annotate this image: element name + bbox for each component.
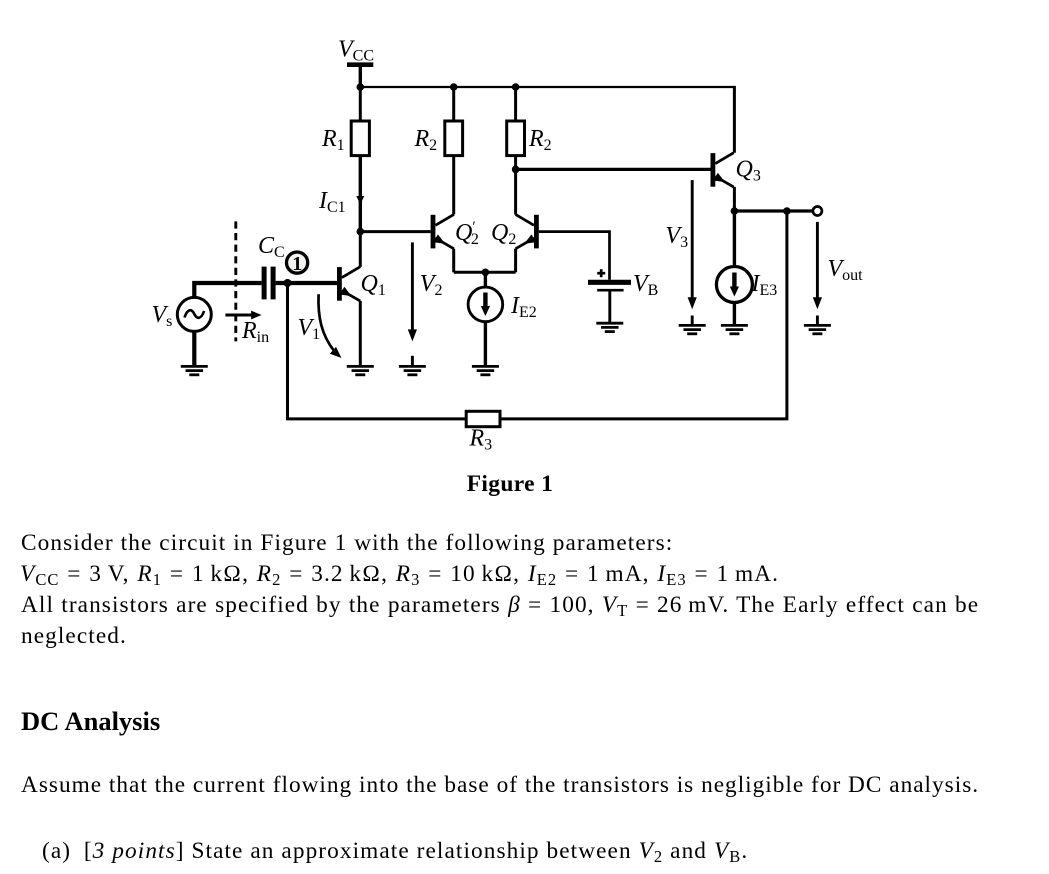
wire common emitter horizontal [454, 271, 516, 274]
wire VB to ground [608, 292, 611, 323]
sine wave inside Vs [185, 310, 205, 318]
wire R2 right to Q2 collector [514, 156, 517, 215]
wire rail to R2 left [452, 87, 455, 121]
wire VCC stem [359, 65, 362, 87]
node rail-R2 left [450, 83, 458, 91]
wire Q2p emitter down [452, 249, 455, 273]
wire top supply rail [360, 86, 734, 88]
measurement arrow Vout [816, 222, 819, 298]
wire R2 left to Q2p collector [452, 156, 455, 215]
wire IE3 to ground [733, 303, 736, 326]
wire IE2 to ground [484, 322, 487, 367]
measurement arrow V1 [318, 294, 334, 351]
ground below IE2 [472, 365, 499, 368]
capacitor Cc plate right [271, 267, 276, 300]
measurement arrow V2 [411, 242, 414, 330]
node R2 right / Q3 base wire [512, 166, 520, 174]
current arrow IC1 [356, 196, 364, 205]
source Vs circle [177, 297, 211, 331]
resistor R2 (right) [507, 121, 525, 156]
ground below V3 [679, 324, 706, 327]
wire rail to R1 [359, 87, 362, 121]
terminal open circle Vout [813, 207, 822, 216]
ground stub below V3 [691, 316, 694, 326]
ground below VB [596, 322, 623, 325]
ground below Q1 [347, 365, 374, 368]
wire Vs up and right to Cc [194, 283, 261, 297]
capacitor Cc plate left [262, 267, 267, 300]
transistor Q1 [337, 267, 342, 301]
ground stub below V2 [411, 356, 414, 366]
wire node to Q3 base [516, 168, 711, 171]
wire Q3 emitter down to output node [733, 187, 736, 211]
wire R1 to node, current IC1 [359, 156, 362, 232]
ground below Vs [181, 365, 208, 368]
current source IE2 [468, 287, 503, 322]
wire Q2 emitter down [514, 249, 517, 273]
ground below IE3 [721, 324, 748, 327]
power VCC bar [347, 62, 373, 67]
resistor R1 [351, 121, 369, 156]
wire rail to R2 right [514, 87, 517, 121]
current source IE3 [716, 267, 752, 303]
dashed line Rin boundary [234, 221, 237, 341]
arrow Rin [225, 314, 253, 317]
wire Q1 collector node to Q2p base [360, 230, 430, 233]
node rail-R1 [357, 83, 365, 91]
wire feedback vertical right [500, 211, 787, 419]
node feedback takeoff [783, 207, 791, 215]
svg-text:1: 1 [292, 253, 302, 275]
ground below V2 [399, 365, 426, 368]
transistor Q2 (right of diff pair) [534, 215, 539, 249]
wire Vs to ground [192, 331, 196, 366]
measurement arrow V3 [691, 180, 694, 298]
wire output node to terminal [734, 209, 813, 212]
transistor Q2p [431, 215, 436, 249]
wire bottom left segment [288, 283, 467, 419]
wire Q1 emitter down to ground [359, 301, 362, 366]
resistor R2 (left) [445, 121, 463, 156]
node label circled 1 [287, 252, 308, 273]
wire Cc to Q1 base [276, 281, 338, 285]
node collector Q1 / base Q2p [357, 228, 365, 236]
node Q3 emitter/output [731, 207, 739, 215]
transistor Q3 [711, 153, 716, 187]
wire Q2 base to VB [539, 232, 610, 280]
svg-text:Figure 1: Figure 1 [467, 471, 554, 497]
wire node to IE3 [733, 211, 736, 267]
ground stub below Vout [816, 316, 819, 326]
ground below Vout [804, 324, 831, 327]
wire Q1 collector up to node [359, 232, 362, 267]
node rail-R2 right [512, 83, 520, 91]
wire rail corner down to Q3 collector [733, 86, 736, 153]
resistor R3 [466, 411, 500, 426]
battery VB short plate [597, 289, 623, 292]
battery VB plus sign [597, 272, 605, 275]
battery VB long plate [588, 280, 631, 285]
wire node to IE2 [484, 272, 487, 287]
svg-text:Q′2: Q′2 [455, 219, 479, 248]
node 1 junction dot [284, 279, 292, 287]
node common emitters [482, 269, 490, 277]
